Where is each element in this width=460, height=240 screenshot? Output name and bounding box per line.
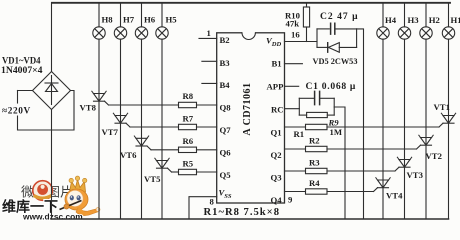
- lamp H3 wire: [404, 3, 406, 27]
- watermark mascot crown: [70, 180, 86, 193]
- svg-text:VD5 2CW53: VD5 2CW53: [313, 56, 359, 66]
- wire RC network to VSS rail: [334, 107, 345, 219]
- svg-text:≈220V: ≈220V: [2, 107, 31, 117]
- wire R7 to Q7 pin: [197, 126, 217, 128]
- wire R4 to VT4 gate: [327, 191, 374, 193]
- RC network box right side: [333, 98, 335, 115]
- svg-text:R6: R6: [183, 136, 194, 146]
- lamp H6 wire: [141, 3, 143, 27]
- svg-text:16: 16: [291, 29, 300, 39]
- svg-text:H5: H5: [166, 15, 178, 25]
- wire top supply rail: [52, 2, 450, 4]
- svg-text:Q8: Q8: [220, 102, 232, 112]
- svg-text:VT8: VT8: [80, 103, 97, 113]
- svg-text:R2: R2: [309, 136, 320, 146]
- svg-text:R1: R1: [294, 129, 305, 139]
- pin APP stub: [285, 85, 299, 87]
- lamp H8: [93, 27, 105, 39]
- svg-text:H2: H2: [429, 15, 440, 25]
- svg-text:H6: H6: [144, 15, 156, 25]
- resistor R3: [306, 168, 328, 173]
- pin 1 B2 stub: [199, 37, 217, 39]
- svg-text:A CD71061: A CD71061: [242, 82, 253, 135]
- wire bridge - output down to bottom rail: [51, 110, 53, 220]
- svg-text:H7: H7: [123, 15, 135, 25]
- wire R3 to VT3 gate: [327, 170, 395, 172]
- diode inside bridge: [51, 76, 53, 105]
- svg-text:H3: H3: [408, 15, 420, 25]
- rectifier bridge VD1~VD4 diamond: [33, 72, 71, 110]
- svg-text:9: 9: [288, 194, 293, 204]
- zener VD5: [317, 46, 327, 48]
- lamp H8 wire: [98, 3, 100, 27]
- resistor R2: [306, 146, 328, 151]
- svg-text:R8: R8: [183, 91, 194, 101]
- lamp H3: [398, 27, 410, 39]
- lamp H1 wire: [448, 3, 450, 27]
- svg-text:Q5: Q5: [220, 170, 232, 180]
- svg-text:www.dzsc.com: www.dzsc.com: [22, 212, 83, 222]
- watermark mascot face: [67, 190, 83, 206]
- svg-text:47k: 47k: [286, 19, 300, 29]
- lamp H7: [114, 27, 126, 39]
- svg-text:Q6: Q6: [220, 147, 232, 157]
- wire R6 to Q6 pin: [197, 149, 217, 151]
- svg-text:C2 47 μ: C2 47 μ: [320, 11, 359, 22]
- thyristor VT5: [155, 158, 169, 160]
- lamp H2 wire: [425, 3, 427, 27]
- lamp H4: [377, 27, 389, 39]
- svg-text:1N4007×4: 1N4007×4: [1, 66, 43, 76]
- lamp H7 wire: [120, 3, 122, 27]
- wire AC source loop: [17, 91, 19, 104]
- thyristor VT4: [376, 178, 390, 180]
- svg-text:Q2: Q2: [271, 150, 282, 160]
- capacitor C1: [299, 97, 313, 99]
- thyristor VT7: [113, 113, 127, 115]
- watermark badge seal: [33, 181, 53, 201]
- svg-text:Q7: Q7: [220, 125, 232, 135]
- lamp H4 wire: [382, 3, 384, 27]
- wire VT5 gate to R5: [172, 171, 179, 173]
- resistor R9 1M: [299, 114, 306, 116]
- resistor R1: [306, 124, 328, 129]
- wire AC input left: [18, 90, 33, 92]
- wire Q1 pin to R1: [285, 126, 306, 128]
- svg-text:VT7: VT7: [102, 127, 119, 137]
- lamp H5: [156, 27, 168, 39]
- svg-text:R4: R4: [309, 178, 320, 188]
- IC notch: [242, 32, 255, 34]
- pin B4 stub: [202, 82, 217, 84]
- svg-text:VT2: VT2: [426, 151, 442, 161]
- wire R2 to VT2 gate: [327, 148, 417, 150]
- svg-text:1: 1: [207, 28, 211, 38]
- thyristor VT2: [419, 135, 433, 137]
- thyristor VT3: [397, 157, 411, 159]
- watermark mascot stick: [60, 201, 82, 210]
- zener/cap parallel loop left side: [316, 29, 318, 48]
- svg-text:H8: H8: [102, 15, 114, 25]
- svg-text:VT6: VT6: [120, 150, 137, 160]
- wire VT8 gate to R8: [109, 104, 179, 106]
- svg-text:1M: 1M: [330, 127, 343, 137]
- capacitor C2: [317, 28, 329, 30]
- thyristor VT8: [92, 91, 106, 93]
- svg-text:Q1: Q1: [271, 127, 282, 137]
- loop right side: [356, 29, 358, 48]
- svg-text:B2: B2: [220, 35, 230, 45]
- svg-text:RC: RC: [271, 104, 284, 114]
- resistor R8: [179, 102, 197, 107]
- svg-text:R5: R5: [183, 158, 194, 168]
- pin B3 stub: [202, 60, 217, 62]
- wire bottom supply rail: [52, 218, 449, 220]
- watermark mascot body and arms: [76, 208, 98, 216]
- wire Q4 pin to R4: [285, 191, 306, 193]
- svg-text:VT4: VT4: [386, 191, 403, 201]
- resistor R7: [179, 124, 197, 129]
- wire loop to VSS rail: [357, 29, 364, 219]
- wire VDD pin16: [285, 41, 318, 43]
- wire VT7 gate to R7: [130, 126, 179, 128]
- wire R8 to Q8 pin: [197, 104, 217, 106]
- wire bridge + output up to top rail: [51, 3, 53, 72]
- svg-text:Q3: Q3: [271, 172, 283, 182]
- svg-text:R1~R8 7.5k×8: R1~R8 7.5k×8: [204, 207, 281, 218]
- svg-text:B4: B4: [220, 80, 231, 90]
- wire RC pin: [285, 108, 300, 110]
- wire Q3 pin to R3: [285, 170, 306, 172]
- lamp H5 wire: [161, 3, 163, 27]
- svg-text:APP: APP: [267, 81, 285, 91]
- wire R1 to VT1 gate: [327, 126, 439, 128]
- svg-text:B3: B3: [220, 58, 231, 68]
- svg-text:B1: B1: [272, 58, 282, 68]
- lamp H1: [442, 27, 454, 39]
- pin B1 stub: [285, 63, 303, 65]
- lamp H2: [420, 27, 432, 39]
- svg-text:H4: H4: [385, 15, 397, 25]
- svg-text:VT1: VT1: [434, 102, 450, 112]
- pin 8 VSS wire: [189, 197, 217, 219]
- svg-text:R3: R3: [309, 157, 320, 167]
- wire R5 to Q5 pin: [197, 171, 217, 173]
- wire VT6 gate to R6: [151, 149, 179, 151]
- resistor R6: [179, 147, 197, 152]
- svg-text:8: 8: [210, 196, 215, 206]
- resistor R5: [179, 169, 197, 174]
- IC U1 CD71061 body: [217, 33, 285, 203]
- RC network box left side: [298, 98, 300, 115]
- thyristor VT1: [441, 113, 455, 115]
- resistor R4: [306, 189, 328, 194]
- thyristor VT6: [134, 136, 148, 138]
- svg-text:R7: R7: [183, 113, 194, 123]
- svg-text:H1: H1: [451, 15, 460, 25]
- lamp H6: [135, 27, 147, 39]
- wire Q2 pin to R2: [285, 148, 306, 150]
- svg-text:Q4: Q4: [271, 195, 283, 205]
- watermark mascot hood: [65, 189, 88, 210]
- svg-text:C1 0.068 μ: C1 0.068 μ: [306, 81, 357, 92]
- svg-text:VT5: VT5: [144, 174, 161, 184]
- svg-text:VT3: VT3: [407, 170, 424, 180]
- resistor R10: [306, 3, 308, 7]
